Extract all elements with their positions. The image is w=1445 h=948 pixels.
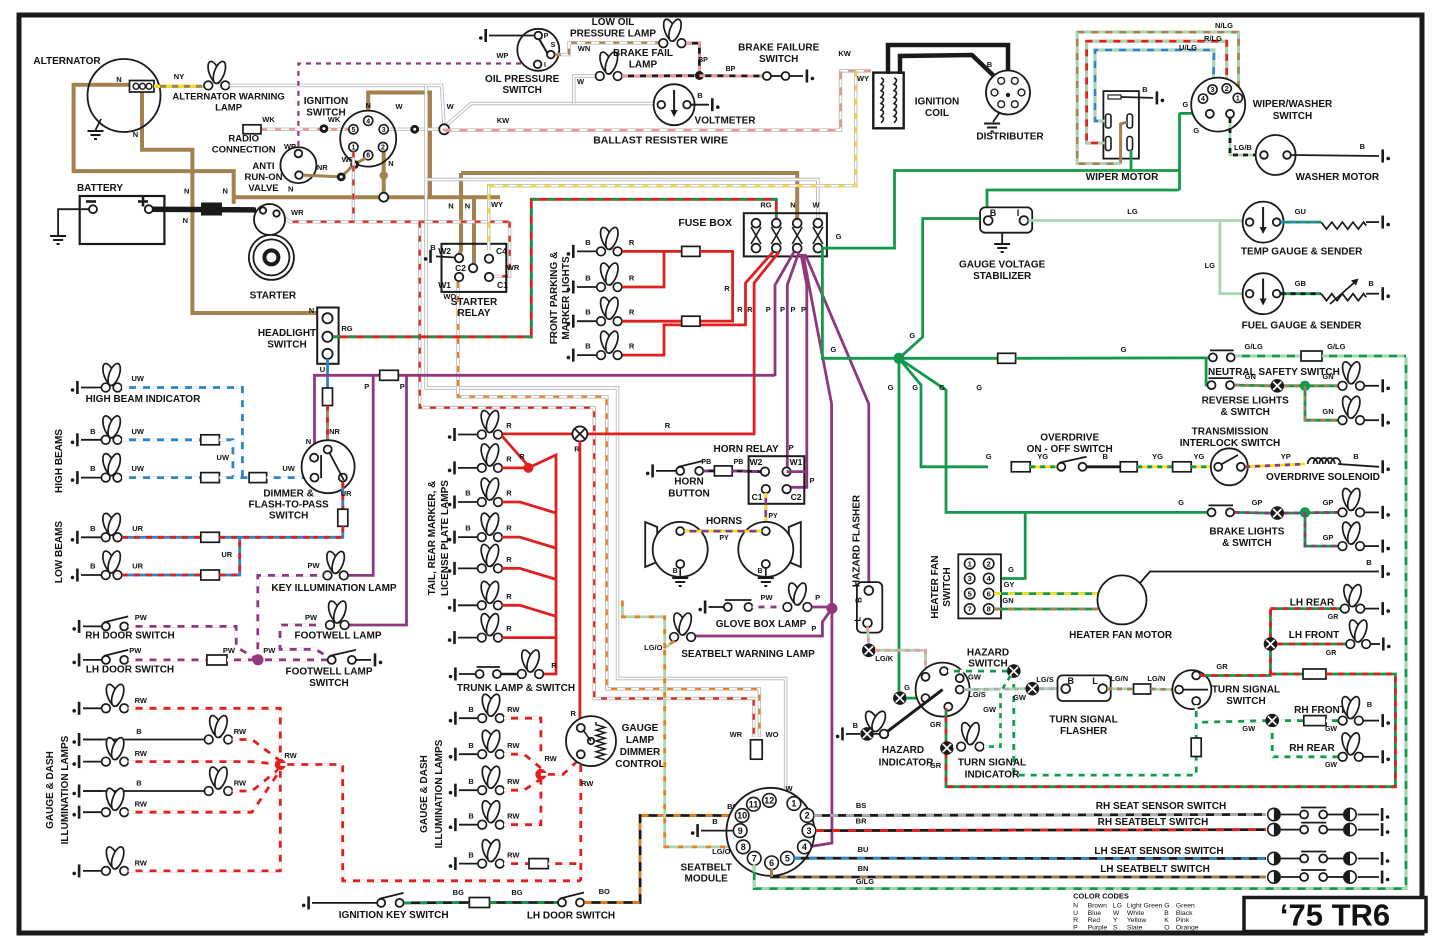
svg-text:YG: YG xyxy=(1152,452,1163,461)
turn switch resistor vertical xyxy=(1195,705,1198,738)
wire R marker lamp 3 xyxy=(622,320,682,323)
wire GY heater to motor xyxy=(994,592,1098,595)
dash lamp left y739 xyxy=(83,739,102,741)
svg-text:LH FRONT: LH FRONT xyxy=(1289,630,1340,641)
svg-text:LG/N: LG/N xyxy=(1147,674,1165,683)
svg-text:WP: WP xyxy=(496,51,508,60)
svg-text:I: I xyxy=(1017,208,1020,218)
svg-text:N: N xyxy=(1073,903,1078,910)
svg-text:GB: GB xyxy=(1295,279,1307,288)
svg-text:N: N xyxy=(448,202,453,211)
svg-text:P: P xyxy=(801,305,806,314)
tail lamp row y502 xyxy=(458,501,478,503)
svg-text:B: B xyxy=(1102,452,1108,461)
junction G dot xyxy=(893,353,904,364)
svg-text:G: G xyxy=(1182,100,1188,109)
svg-text:LH DOOR SWITCH: LH DOOR SWITCH xyxy=(527,911,615,922)
svg-text:G: G xyxy=(888,383,894,392)
svg-text:FLASHER: FLASHER xyxy=(1060,726,1108,737)
svg-text:NR: NR xyxy=(317,163,328,172)
ground stabilizer xyxy=(1001,233,1003,243)
tail lamp row y537 xyxy=(458,536,478,538)
heater fan switch xyxy=(958,554,1001,618)
dash lamp right y718 xyxy=(459,717,478,719)
svg-text:RW: RW xyxy=(135,696,148,705)
wire G to heater fan switch xyxy=(994,512,1025,578)
voltmeter xyxy=(654,84,695,125)
svg-text:3: 3 xyxy=(382,127,386,134)
RH door switch xyxy=(83,625,102,627)
svg-text:B: B xyxy=(585,274,591,283)
svg-text:LG/O: LG/O xyxy=(712,847,730,856)
svg-text:RW: RW xyxy=(135,858,148,867)
low beam lamp 1 xyxy=(81,536,102,538)
wire GN to reverse lamp 2 xyxy=(1305,386,1338,420)
svg-text:PW: PW xyxy=(761,593,774,602)
battery xyxy=(80,196,165,244)
svg-text:FUEL GAUGE & SENDER: FUEL GAUGE & SENDER xyxy=(1242,321,1363,332)
svg-text:Yellow: Yellow xyxy=(1127,917,1146,924)
svg-text:6: 6 xyxy=(366,153,370,160)
svg-text:B: B xyxy=(1360,142,1366,151)
svg-text:DIMMER: DIMMER xyxy=(620,747,661,758)
svg-text:PRESSURE LAMP: PRESSURE LAMP xyxy=(570,29,656,40)
svg-text:BP: BP xyxy=(726,66,736,73)
svg-text:N: N xyxy=(184,187,189,196)
svg-text:HEADLIGHT: HEADLIGHT xyxy=(258,328,316,339)
svg-text:UW: UW xyxy=(131,374,144,383)
junction P dot xyxy=(826,603,837,614)
svg-text:RW: RW xyxy=(507,777,520,786)
wiper motor box xyxy=(1103,91,1139,159)
svg-text:Light Green: Light Green xyxy=(1127,903,1163,910)
wire U headlight down xyxy=(326,359,329,388)
wire G wiper junction vertical xyxy=(1178,113,1181,190)
svg-text:WR: WR xyxy=(291,208,304,217)
svg-text:SWITCH: SWITCH xyxy=(267,340,306,351)
svg-text:KW: KW xyxy=(838,49,851,58)
svg-text:RG: RG xyxy=(760,201,771,210)
wire P main to headlight area xyxy=(315,375,776,453)
svg-text:L: L xyxy=(1092,676,1098,686)
svg-text:INTERLOCK SWITCH: INTERLOCK SWITCH xyxy=(1180,438,1281,449)
high beam lamp 2 xyxy=(81,477,102,479)
wire B battery heavy cable xyxy=(152,206,256,212)
svg-text:SWITCH: SWITCH xyxy=(502,85,541,96)
wire P glove lamp to junction xyxy=(812,606,829,609)
wire G fuse main to wiper xyxy=(822,171,1180,249)
svg-text:LG/N: LG/N xyxy=(1110,674,1128,683)
svg-text:ALTERNATOR WARNING: ALTERNATOR WARNING xyxy=(172,92,284,103)
svg-text:HAZARD FLASHER: HAZARD FLASHER xyxy=(852,494,863,587)
svg-text:N: N xyxy=(183,216,188,225)
svg-text:C1: C1 xyxy=(497,280,508,290)
svg-text:SWITCH: SWITCH xyxy=(759,54,798,65)
svg-text:G: G xyxy=(830,345,836,354)
fusible link xyxy=(201,203,222,216)
glove box lamp xyxy=(709,606,725,608)
tail lamp row y467 xyxy=(458,467,478,469)
svg-text:W2: W2 xyxy=(750,457,763,467)
svg-text:BN: BN xyxy=(858,864,869,873)
svg-text:G: G xyxy=(909,331,915,340)
svg-text:4: 4 xyxy=(1201,96,1205,103)
svg-text:G: G xyxy=(1178,498,1184,507)
svg-text:B: B xyxy=(853,721,859,730)
washer motor xyxy=(1256,135,1296,175)
svg-text:LG: LG xyxy=(1127,207,1138,216)
svg-text:G/LG: G/LG xyxy=(1327,342,1345,351)
reverse lights switch xyxy=(1208,381,1216,389)
wire WR tail-lamp loop xyxy=(420,222,754,737)
svg-text:B: B xyxy=(465,489,471,498)
wire LG/N flasher to turn switch xyxy=(1107,687,1133,690)
wire G dot to hazard xyxy=(898,358,901,691)
svg-text:B: B xyxy=(1353,452,1359,461)
svg-text:4: 4 xyxy=(366,118,370,125)
svg-text:RW: RW xyxy=(135,800,148,809)
wire LG stabilizer to temp gauge xyxy=(1028,219,1244,222)
svg-text:U: U xyxy=(320,365,325,374)
resistor on P xyxy=(380,370,399,380)
svg-text:STABILIZER: STABILIZER xyxy=(973,271,1032,282)
wire BP junction to brake failure switch xyxy=(699,74,762,77)
svg-text:PW: PW xyxy=(263,646,276,655)
wire W brake fail lamp branch xyxy=(574,76,596,104)
svg-text:MODULE: MODULE xyxy=(685,874,729,885)
footwell lamp switch xyxy=(328,656,336,664)
svg-text:R: R xyxy=(506,421,512,430)
svg-text:VOLTMETER: VOLTMETER xyxy=(695,116,757,127)
wire YP to solenoid xyxy=(1245,464,1305,467)
svg-text:K: K xyxy=(1164,917,1169,924)
svg-text:RH SEATBELT SWITCH: RH SEATBELT SWITCH xyxy=(1098,817,1209,828)
svg-text:N: N xyxy=(288,185,293,194)
wire YG to interlock xyxy=(1137,465,1172,468)
wire N ignition feed xyxy=(368,93,430,198)
svg-text:W: W xyxy=(447,102,455,111)
svg-text:GN: GN xyxy=(1002,596,1013,605)
svg-text:SWITCH: SWITCH xyxy=(1273,111,1312,122)
svg-text:‘75 TR6: ‘75 TR6 xyxy=(1280,898,1390,933)
wire N ignition terminal 2 down xyxy=(382,151,386,197)
junction PW dot xyxy=(253,654,264,665)
svg-text:PB: PB xyxy=(734,459,744,466)
svg-text:HORN RELAY: HORN RELAY xyxy=(713,444,779,455)
horns xyxy=(645,522,657,567)
svg-text:B: B xyxy=(90,562,96,571)
wire RW left cluster xyxy=(129,708,281,760)
wire GW hazard to connector xyxy=(948,670,1007,673)
svg-text:HIGH BEAM INDICATOR: HIGH BEAM INDICATOR xyxy=(86,394,201,405)
svg-text:2: 2 xyxy=(381,145,385,152)
alternator A1 xyxy=(88,59,161,132)
wire LG/B to washer motor xyxy=(1230,118,1260,155)
svg-text:B: B xyxy=(465,524,471,533)
wire WR bus to C1 and tail loop xyxy=(281,216,510,222)
svg-text:PW: PW xyxy=(307,561,320,570)
wire BS pin2 row xyxy=(814,815,1266,816)
svg-text:HIGH BEAMS: HIGH BEAMS xyxy=(54,429,65,493)
wire W diagonal from ring to voltmeter run xyxy=(444,104,661,128)
junction BP xyxy=(695,71,704,80)
gauge lamp dimmer control xyxy=(566,716,616,766)
svg-text:COIL: COIL xyxy=(925,108,949,119)
brake failure switch xyxy=(763,72,771,80)
svg-text:& SWITCH: & SWITCH xyxy=(1222,538,1271,549)
svg-text:UR: UR xyxy=(221,550,232,559)
wire W ignition sw 3 to ring xyxy=(388,128,440,131)
wire RW row5 through resistor xyxy=(504,862,528,865)
wire LG branch to fuel gauge xyxy=(1220,221,1244,294)
wire UW high beam 2 to dimmer xyxy=(122,476,201,479)
marker lamp y251 xyxy=(577,250,597,252)
svg-text:HORNS: HORNS xyxy=(706,516,742,527)
svg-text:GW: GW xyxy=(1013,693,1027,702)
ignition key switch xyxy=(312,902,377,904)
svg-text:R: R xyxy=(747,305,753,314)
svg-text:B: B xyxy=(136,727,142,736)
svg-text:INDICATOR: INDICATOR xyxy=(965,770,1020,781)
svg-text:IGNITION: IGNITION xyxy=(304,96,348,107)
wire GP brake to lamps xyxy=(1235,511,1272,514)
wire GB fuel to zigzag xyxy=(1281,292,1322,295)
svg-text:RW: RW xyxy=(507,741,520,750)
svg-text:R: R xyxy=(570,709,576,718)
svg-text:2: 2 xyxy=(987,559,991,568)
svg-text:G: G xyxy=(939,383,945,392)
wire BR pin3 row xyxy=(816,830,1266,831)
wire NR valve to ignition 6 xyxy=(303,175,341,177)
svg-text:RELAY: RELAY xyxy=(458,308,491,319)
wire RG headlight to fuse 2 xyxy=(333,199,776,336)
svg-text:8: 8 xyxy=(987,605,991,614)
wire G dot to brake switch xyxy=(899,358,1207,512)
fuel gauge and sender xyxy=(1243,273,1284,314)
svg-text:G: G xyxy=(1121,345,1127,354)
wire B voltmeter ground xyxy=(691,104,709,106)
headlight switch xyxy=(317,308,338,364)
svg-text:B: B xyxy=(855,597,864,603)
svg-text:Slate: Slate xyxy=(1127,924,1143,931)
svg-text:GAUGE & DASH: GAUGE & DASH xyxy=(419,755,430,833)
svg-text:9: 9 xyxy=(738,826,743,836)
svg-text:R: R xyxy=(519,452,525,461)
svg-text:RW: RW xyxy=(234,779,247,788)
svg-text:IGNITION KEY SWITCH: IGNITION KEY SWITCH xyxy=(339,910,449,921)
svg-text:LG/B: LG/B xyxy=(1234,143,1252,152)
wire G/LG pin7 loop xyxy=(754,357,1406,888)
marker lamp y355 xyxy=(577,354,597,356)
dash lamp right y754 xyxy=(459,753,478,755)
svg-text:LG/O: LG/O xyxy=(644,643,662,652)
svg-text:Purple: Purple xyxy=(1088,924,1108,931)
svg-text:O: O xyxy=(1164,924,1169,931)
svg-text:IGNITION: IGNITION xyxy=(915,97,959,108)
wire WY coil branch down to C4 xyxy=(489,71,856,250)
svg-text:FOOTWELL LAMP: FOOTWELL LAMP xyxy=(285,667,372,678)
ground pin9 xyxy=(701,830,733,832)
svg-text:TURN SIGNAL: TURN SIGNAL xyxy=(1049,715,1117,726)
svg-text:R: R xyxy=(1073,917,1078,924)
svg-text:S: S xyxy=(1113,924,1118,931)
svg-text:LAMP: LAMP xyxy=(626,735,655,746)
svg-text:R: R xyxy=(506,555,512,564)
svg-text:BG: BG xyxy=(511,888,522,897)
svg-text:B: B xyxy=(697,91,703,100)
svg-text:UR: UR xyxy=(132,524,143,533)
svg-text:W2: W2 xyxy=(438,246,451,256)
svg-text:B: B xyxy=(90,464,96,473)
svg-text:R: R xyxy=(629,274,635,283)
turn signal indicator xyxy=(940,741,954,755)
svg-text:R: R xyxy=(629,238,635,247)
svg-text:LAMP: LAMP xyxy=(215,103,243,114)
svg-text:TAIL, REAR MARKER, &: TAIL, REAR MARKER, & xyxy=(427,481,438,596)
svg-text:Red: Red xyxy=(1088,917,1101,924)
svg-text:RH DOOR SWITCH: RH DOOR SWITCH xyxy=(85,631,174,642)
brake lights switch xyxy=(1208,508,1216,516)
svg-text:B: B xyxy=(90,524,96,533)
wire RW dimmer down to bottom run xyxy=(579,758,582,881)
svg-text:TRANSMISSION: TRANSMISSION xyxy=(1192,427,1269,438)
tail lamp row y434 xyxy=(458,434,478,436)
wire KW ring to ignition coil xyxy=(444,71,871,131)
bullet connector on W at ignition xyxy=(410,125,419,134)
svg-text:WIPER MOTOR: WIPER MOTOR xyxy=(1086,172,1159,183)
svg-text:DISTRIBUTER: DISTRIBUTER xyxy=(976,132,1044,143)
wire R tail bus xyxy=(502,436,528,466)
ground alternator xyxy=(96,119,102,130)
wire R license to dimmer control xyxy=(579,441,582,723)
svg-text:TRUNK LAMP & SWITCH: TRUNK LAMP & SWITCH xyxy=(457,683,575,694)
svg-text:HEATER FAN: HEATER FAN xyxy=(930,555,941,618)
svg-text:B: B xyxy=(990,208,997,218)
wire BG key switch to LH door xyxy=(404,901,469,904)
svg-text:L: L xyxy=(854,616,863,621)
svg-text:3: 3 xyxy=(806,826,811,836)
svg-text:LG/S: LG/S xyxy=(968,690,986,699)
svg-text:R: R xyxy=(665,421,671,430)
anti run-on valve xyxy=(280,147,316,183)
gauge voltage stabilizer xyxy=(980,207,1032,232)
svg-text:R: R xyxy=(724,284,730,293)
dash lamp left y708 xyxy=(83,707,102,709)
svg-text:ALTERNATOR: ALTERNATOR xyxy=(33,56,101,67)
svg-text:5: 5 xyxy=(785,853,790,863)
radio connection resistor xyxy=(243,125,261,134)
svg-text:8: 8 xyxy=(741,842,746,852)
svg-text:G: G xyxy=(836,232,842,241)
svg-text:R: R xyxy=(506,489,512,498)
wire LG/O seatbelt lamp to pin8 xyxy=(665,641,739,847)
wire GR branch to LH lamps xyxy=(1269,609,1272,676)
svg-text:OVERDRIVE: OVERDRIVE xyxy=(1040,433,1099,444)
wire G wiper motor to main xyxy=(1130,150,1133,171)
svg-text:GAUGE: GAUGE xyxy=(622,723,659,734)
wire PW RH door xyxy=(129,626,259,659)
svg-text:RW: RW xyxy=(284,751,297,760)
wire B coil to distributor xyxy=(888,45,1008,90)
wire B overdrive xyxy=(1087,465,1121,468)
seatbelt module xyxy=(726,788,814,876)
svg-text:B: B xyxy=(585,238,591,247)
svg-text:B: B xyxy=(1368,279,1374,288)
svg-text:N: N xyxy=(116,75,121,84)
svg-text:B: B xyxy=(1142,85,1148,94)
svg-text:G: G xyxy=(986,452,992,461)
svg-text:B: B xyxy=(987,60,993,69)
wire W warning lamp to connector ring xyxy=(230,85,445,125)
svg-text:B: B xyxy=(468,705,474,714)
wire GP to brake lamp 2 xyxy=(1305,512,1338,546)
svg-text:GP: GP xyxy=(1252,498,1263,507)
svg-text:B: B xyxy=(673,568,678,575)
svg-text:R: R xyxy=(629,342,635,351)
wire BU pin5 row xyxy=(793,857,1266,860)
wire G down to reverse switch xyxy=(1206,358,1208,385)
wire UR low beam 2 xyxy=(122,574,201,577)
wire WP oil pressure switch to valve xyxy=(298,64,531,151)
horn relay xyxy=(749,456,805,504)
svg-text:SWITCH: SWITCH xyxy=(269,511,308,522)
svg-text:PY: PY xyxy=(719,535,729,542)
svg-text:Brown: Brown xyxy=(1088,903,1107,910)
trunk lamp and switch xyxy=(459,673,476,675)
low beam lamp 2 xyxy=(81,574,102,576)
svg-text:R: R xyxy=(551,661,557,670)
svg-text:LH DOOR SWITCH: LH DOOR SWITCH xyxy=(86,665,174,676)
svg-text:P: P xyxy=(790,305,795,314)
svg-text:WY: WY xyxy=(491,200,503,209)
svg-text:WY: WY xyxy=(857,74,869,83)
svg-text:RW: RW xyxy=(234,727,247,736)
wire WR ignition 1 down to bus xyxy=(352,152,355,222)
marker lamp y287 xyxy=(577,286,597,288)
svg-text:GN: GN xyxy=(1322,372,1333,381)
svg-text:C1: C1 xyxy=(752,492,763,502)
LH door switch upper xyxy=(83,659,102,661)
svg-text:HEATER FAN MOTOR: HEATER FAN MOTOR xyxy=(1069,630,1173,641)
hazard indicator xyxy=(846,733,860,735)
svg-text:RH SEAT SENSOR SWITCH: RH SEAT SENSOR SWITCH xyxy=(1096,801,1226,812)
svg-text:W: W xyxy=(785,784,793,793)
svg-text:GP: GP xyxy=(1323,498,1334,507)
wire BP lamp to junction 2 xyxy=(622,74,699,77)
svg-text:GR: GR xyxy=(1216,662,1228,671)
svg-text:SWITCH: SWITCH xyxy=(306,108,345,119)
connector ring W/KW junction xyxy=(439,124,449,134)
svg-text:P: P xyxy=(815,593,820,602)
wire PW dot to footwell switch xyxy=(258,658,327,661)
svg-text:P: P xyxy=(789,443,794,452)
svg-text:P: P xyxy=(400,382,405,391)
wire N/LG loop xyxy=(1077,32,1238,164)
svg-text:10: 10 xyxy=(737,811,747,821)
svg-text:3: 3 xyxy=(1211,87,1215,94)
svg-text:LG/S: LG/S xyxy=(1036,675,1054,684)
dash lamp right y824 xyxy=(459,824,478,826)
wire WO starter relay W1 down loop xyxy=(458,282,759,737)
svg-text:GY: GY xyxy=(1004,580,1015,589)
wire R marker lamp 1 chain xyxy=(622,250,682,253)
svg-text:BP: BP xyxy=(698,57,708,64)
wire PY C1 to horns xyxy=(764,493,767,527)
dash lamp left y791 xyxy=(83,790,102,792)
svg-text:B: B xyxy=(585,308,591,317)
dash lamp right y863 xyxy=(459,863,478,865)
seatbelt warning lamp xyxy=(670,611,696,641)
